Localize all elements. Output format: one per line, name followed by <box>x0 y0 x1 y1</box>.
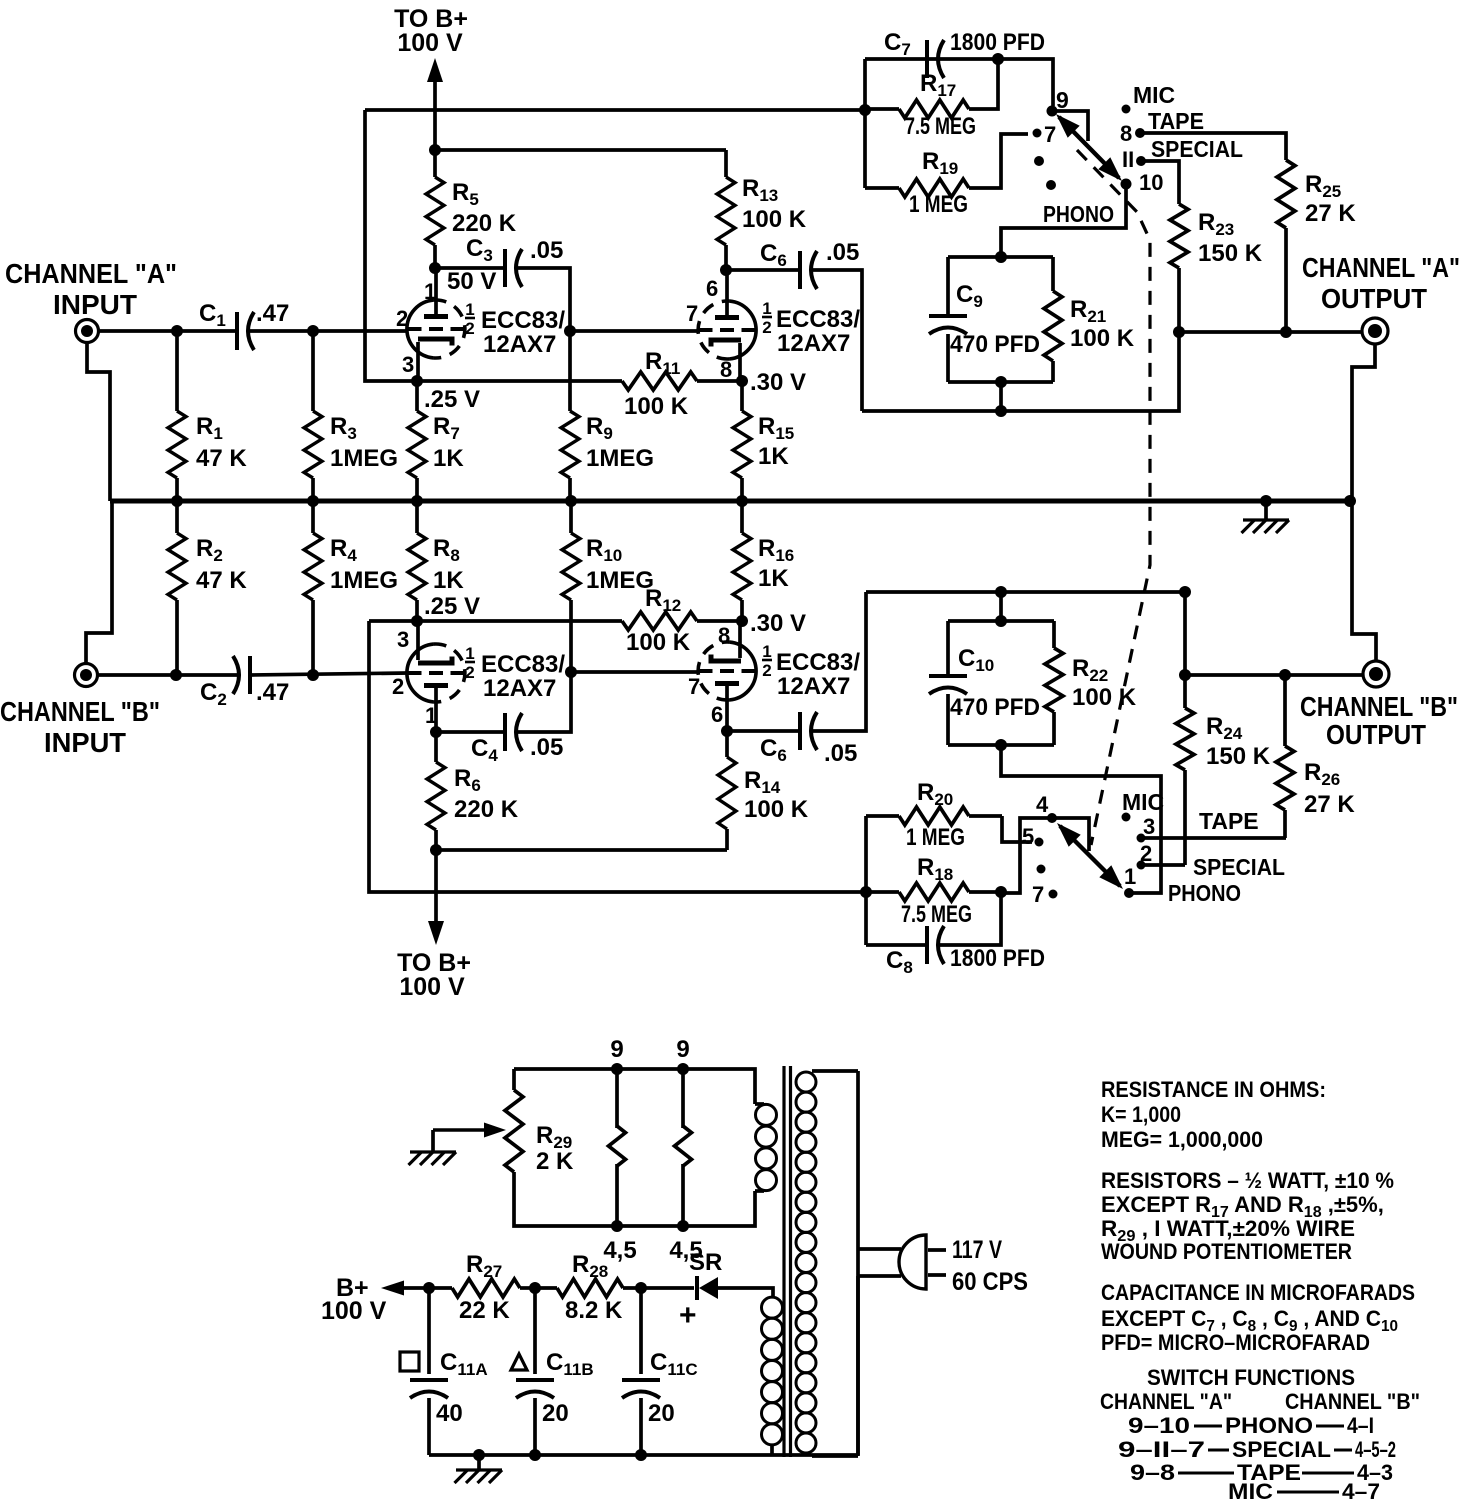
svg-text:WOUND POTENTIOMETER: WOUND POTENTIOMETER <box>1101 1239 1352 1264</box>
note switch table header <box>1100 1389 1420 1414</box>
pin labels V4 <box>688 623 730 727</box>
node B+ output arrow <box>321 1274 429 1325</box>
resistor R2 <box>168 501 186 675</box>
AC plug 117V 60CPS <box>858 1235 946 1289</box>
wire V4 grid from C4 node <box>571 670 698 674</box>
wire V4 cathode lead <box>738 621 742 658</box>
value label R6 220K <box>454 765 519 823</box>
svg-text:1 MEG: 1 MEG <box>909 191 968 218</box>
svg-text:470 PFD: 470 PFD <box>950 694 1040 721</box>
svg-text:1: 1 <box>762 299 771 318</box>
node PS bus junctions <box>473 1449 647 1461</box>
wire V1 cathode lead <box>416 342 420 381</box>
capacitor C11B <box>511 1288 594 1455</box>
node C11C top junction <box>635 1282 647 1294</box>
ground (PS bus) <box>455 1455 503 1483</box>
resistor R3 <box>304 331 322 501</box>
switch A wiper arm <box>1056 114 1122 181</box>
svg-text:1: 1 <box>1124 864 1136 889</box>
wire C1 to V1 grid <box>250 329 408 333</box>
svg-text:ECC83/: ECC83/ <box>776 306 860 333</box>
wire primary right leg <box>856 1071 860 1456</box>
node V1 cathode junction <box>411 375 480 413</box>
wire PS ground bus <box>429 1453 858 1457</box>
value label R15 1K <box>758 413 794 470</box>
wire C2 to V3 grid <box>251 673 408 675</box>
svg-text:RESISTORS – ½ WATT, ±10 %: RESISTORS – ½ WATT, ±10 % <box>1101 1168 1394 1193</box>
value label R24 150K <box>1206 713 1271 770</box>
svg-text:8: 8 <box>720 357 732 382</box>
svg-text:10: 10 <box>1139 170 1163 195</box>
wire V2 cathode lead <box>738 343 742 381</box>
capacitor C1 <box>199 300 289 350</box>
wire PHONO B from C10 box <box>1001 745 1161 893</box>
resistor R4 <box>304 501 322 675</box>
pin label 9 (right) <box>676 1036 689 1063</box>
switch A spare contacts <box>1034 156 1056 190</box>
svg-text:12AX7: 12AX7 <box>777 673 850 700</box>
svg-text:100 V: 100 V <box>397 29 463 57</box>
svg-text:8: 8 <box>1120 121 1132 146</box>
svg-text:8.2 K: 8.2 K <box>565 1297 623 1324</box>
output jack channel A <box>1362 318 1388 344</box>
triode V4 (1/2 ECC83/12AX7) <box>698 642 756 700</box>
node heater top junctions <box>611 1063 689 1075</box>
svg-text:CHANNEL "B": CHANNEL "B" <box>1285 1389 1420 1414</box>
svg-text:2: 2 <box>465 319 474 338</box>
node V3 plate pin1 <box>430 726 442 738</box>
svg-text:3: 3 <box>402 352 414 377</box>
switch A contact 8 TAPE <box>1120 108 1204 146</box>
note resistor ratings <box>1101 1168 1394 1264</box>
capacitor C9 + resistor R21 tank <box>929 257 1135 382</box>
resistor R16 <box>733 501 751 621</box>
value label R3 1MEG <box>330 413 398 472</box>
wire V1 cathode to R11 <box>417 379 622 383</box>
svg-text:CHANNEL "A": CHANNEL "A" <box>5 258 177 289</box>
svg-text:27 K: 27 K <box>1304 791 1355 818</box>
wire PHONO A to C9 box <box>1001 184 1126 257</box>
node output B corner junction <box>1179 586 1191 598</box>
svg-text:+: + <box>679 1299 697 1332</box>
svg-text:SPECIAL: SPECIAL <box>1151 136 1243 162</box>
svg-text:2 K: 2 K <box>536 1148 574 1175</box>
capacitor C7 <box>884 29 1045 78</box>
svg-text:9: 9 <box>610 1036 623 1063</box>
svg-text:1K: 1K <box>758 565 789 592</box>
svg-text:MEG= 1,000,000: MEG= 1,000,000 <box>1101 1127 1263 1152</box>
svg-text:100 V: 100 V <box>321 1297 387 1325</box>
svg-text:SWITCH FUNCTIONS: SWITCH FUNCTIONS <box>1147 1365 1355 1390</box>
node B+ supply (top) <box>394 5 468 57</box>
input jack channel A <box>76 320 99 343</box>
svg-text:1: 1 <box>465 300 474 319</box>
svg-text:1MEG: 1MEG <box>330 445 398 472</box>
svg-text:.05: .05 <box>824 740 857 767</box>
value label R28 8.2K <box>565 1251 623 1324</box>
value label R19 1MEG <box>909 148 968 218</box>
svg-text:ECC83/: ECC83/ <box>481 651 565 678</box>
node bus junction x=417 <box>411 495 423 507</box>
svg-text:100 K: 100 K <box>624 393 689 420</box>
value label R23 150K <box>1198 209 1263 267</box>
svg-text:7: 7 <box>1032 882 1044 907</box>
pin labels V3 <box>392 627 437 728</box>
svg-text:9–10: 9–10 <box>1128 1413 1190 1438</box>
svg-text:PHONO: PHONO <box>1225 1413 1313 1438</box>
node heater bottom junctions <box>611 1220 689 1232</box>
wire left feedback leg to V1 cathode <box>365 110 415 381</box>
svg-text:100 K: 100 K <box>742 206 807 233</box>
resistor R25 <box>1277 160 1295 332</box>
switch B contact 3 <box>1137 814 1156 843</box>
wire SR to secondary <box>718 1288 773 1297</box>
node output A rail junction <box>995 405 1007 417</box>
resistor R8 <box>408 501 426 621</box>
svg-text:1MEG: 1MEG <box>330 567 398 594</box>
resistor R6 <box>427 732 445 850</box>
value label R5 220K <box>452 179 517 237</box>
note resistance units <box>1101 1077 1326 1152</box>
svg-text:1K: 1K <box>433 567 464 594</box>
value label R4 1MEG <box>330 535 398 594</box>
node V4 grid junction <box>565 666 577 678</box>
svg-text:6: 6 <box>711 702 723 727</box>
wire R12 to V4 cathode <box>697 619 742 623</box>
wire R6/R14 bottom rail <box>436 848 727 852</box>
value label R29 2K <box>536 1122 574 1175</box>
svg-text:PFD= MICRO–MICROFARAD: PFD= MICRO–MICROFARAD <box>1101 1330 1370 1355</box>
svg-text:1MEG: 1MEG <box>586 567 654 594</box>
node C9 box bottom <box>995 376 1007 388</box>
node bus ground tap <box>1260 495 1272 507</box>
svg-text:9–II–7: 9–II–7 <box>1118 1437 1205 1462</box>
note switch table row special <box>1118 1437 1396 1462</box>
svg-text:6: 6 <box>706 276 718 301</box>
capacitor C4 <box>471 713 563 765</box>
svg-text:7.5 MEG: 7.5 MEG <box>905 113 976 140</box>
node C7/R17 right junction <box>992 53 1004 65</box>
svg-text:1K: 1K <box>433 445 464 472</box>
value label R7 1K <box>433 413 464 472</box>
node B+ supply (bottom) <box>397 949 471 1001</box>
svg-text:150 K: 150 K <box>1206 743 1271 770</box>
wire C10 box top leg <box>999 592 1003 621</box>
value label R18 7.5MEG <box>901 854 972 928</box>
ground (R29 wiper) <box>409 1152 457 1165</box>
potentiometer R29 <box>433 1090 523 1172</box>
svg-text:.47: .47 <box>256 300 289 327</box>
wire C4 left <box>436 730 504 734</box>
resistor R18 <box>866 883 1001 901</box>
wire output line B <box>1185 673 1363 677</box>
svg-text:1800 PFD: 1800 PFD <box>950 945 1045 972</box>
label V1 type <box>465 300 565 358</box>
node feedback rail junction <box>859 104 871 116</box>
value label R12 100K <box>626 585 691 656</box>
wire R20 to contact 5 <box>1002 816 1032 842</box>
node R25 bottom junction <box>1280 326 1292 338</box>
svg-text:9: 9 <box>1056 87 1069 113</box>
wire C3 right to grid riser <box>518 268 570 331</box>
triode V1 (1/2 ECC83/12AX7) <box>407 300 465 358</box>
wire C6A right + riser down <box>813 270 862 411</box>
svg-text:TAPE: TAPE <box>1148 108 1204 134</box>
wire input A to C1 <box>98 329 238 333</box>
switch B spare contact <box>1037 865 1046 874</box>
resistor R10 <box>562 501 580 672</box>
resistor R14 <box>718 731 736 850</box>
wire B+ arrow up <box>427 58 443 150</box>
transformer core <box>784 1066 791 1457</box>
pin labels V2 <box>686 276 732 382</box>
svg-text:40: 40 <box>436 1400 463 1427</box>
svg-text:1: 1 <box>762 642 771 661</box>
svg-text:60 CPS: 60 CPS <box>952 1268 1028 1296</box>
node bus junction x=742 <box>736 495 748 507</box>
svg-text:1800 PFD: 1800 PFD <box>950 29 1045 56</box>
svg-text:100 K: 100 K <box>744 796 809 823</box>
wire B+ arrow down <box>428 850 444 945</box>
svg-text:8: 8 <box>718 623 730 648</box>
node V3 cathode junction <box>411 593 480 627</box>
note switch table row mic <box>1228 1479 1380 1500</box>
svg-text:PHONO: PHONO <box>1043 201 1114 227</box>
rectifier SR <box>641 1249 722 1332</box>
switch A contact 7 <box>1033 122 1057 147</box>
dashed switch gang link <box>1077 150 1150 845</box>
wire jack B ground leg <box>86 501 112 664</box>
pin labels V1 <box>396 306 414 377</box>
resistor R15 <box>733 381 751 501</box>
transformer primary winding <box>796 1071 858 1456</box>
wire input B to C2 <box>97 673 239 677</box>
wire V1 plate lead <box>434 268 438 317</box>
svg-text:4,5: 4,5 <box>603 1237 636 1264</box>
label CHANNEL A OUTPUT <box>1302 252 1460 314</box>
svg-text:470 PFD: 470 PFD <box>950 331 1040 358</box>
capacitor C10 + resistor R22 tank <box>929 621 1137 745</box>
pin label 9 (left) <box>610 1036 623 1063</box>
svg-text:PHONO: PHONO <box>1168 880 1241 906</box>
capacitor C8 <box>866 892 1045 977</box>
svg-text:50 V: 50 V <box>447 268 496 295</box>
node R6 bottom junction <box>430 844 442 856</box>
node junction R5 top <box>429 144 441 156</box>
note capacitance units <box>1101 1280 1415 1355</box>
wire C6A left <box>726 268 799 272</box>
svg-text:.47: .47 <box>256 679 289 706</box>
capacitor C11C <box>622 1288 698 1455</box>
resistor R13 <box>717 150 735 270</box>
svg-text:INPUT: INPUT <box>53 289 137 320</box>
wire switch B frame stub <box>1052 818 1089 851</box>
resistor R12 <box>622 612 697 630</box>
svg-text:27 K: 27 K <box>1305 200 1356 227</box>
node R1 top <box>171 325 183 337</box>
wire C6B left <box>727 729 799 733</box>
svg-text:2: 2 <box>1140 841 1152 866</box>
capacitor C11A <box>400 1288 488 1455</box>
svg-text:.30 V: .30 V <box>750 369 806 396</box>
wire C3 left <box>435 266 504 270</box>
wire TAPE B line <box>1144 808 1286 838</box>
node bus junction x=177 <box>171 495 183 507</box>
wire switch B contact4 to R18 node <box>1006 818 1052 893</box>
wire R11 to V2 cathode <box>697 379 742 383</box>
switch A contact 9 <box>1047 87 1069 117</box>
wire output A lower rail <box>862 332 1179 411</box>
wire V2 grid from C3 node <box>570 329 698 333</box>
switch B contact MIC <box>1122 789 1165 822</box>
svg-text:7: 7 <box>686 301 698 326</box>
svg-text:.05: .05 <box>826 239 859 266</box>
switch B contact 7 <box>1032 882 1058 907</box>
wire V3 cathode lead <box>416 621 420 660</box>
svg-text:MIC: MIC <box>1133 82 1175 108</box>
resistor R17 <box>865 59 998 118</box>
triode V3 (1/2 ECC83/12AX7) <box>407 644 465 702</box>
value label R8 1K <box>433 535 464 594</box>
svg-text:CHANNEL "B": CHANNEL "B" <box>1300 691 1458 722</box>
heater load V2/V4 <box>675 1069 692 1226</box>
wire output line A <box>1179 330 1362 334</box>
node C11A top junction <box>423 1282 435 1294</box>
wire plug lower leg <box>856 1276 860 1455</box>
label CHANNEL A INPUT <box>5 258 177 320</box>
svg-text:2: 2 <box>762 318 771 337</box>
wire top feedback rail <box>365 108 863 112</box>
capacitor C2 <box>200 656 289 709</box>
svg-text:220 K: 220 K <box>452 210 517 237</box>
wire C7 top rail <box>865 59 1053 106</box>
wire ground bus <box>110 499 1352 504</box>
svg-text:2: 2 <box>762 661 771 680</box>
transformer B+ secondary winding <box>762 1297 783 1456</box>
wire jack B ground leg <box>1352 501 1376 661</box>
wire jack A ground leg <box>87 342 110 501</box>
switch A contact 11 SPECIAL <box>1122 136 1243 172</box>
wire plate supply rail to R13 <box>435 148 726 152</box>
svg-text:4–5–2: 4–5–2 <box>1355 1437 1396 1462</box>
value label R14 100K <box>744 767 809 823</box>
svg-text:9: 9 <box>676 1036 689 1063</box>
capacitor C6 (channel B) <box>760 712 857 767</box>
value label R27 22K <box>459 1251 510 1324</box>
svg-text:1K: 1K <box>758 443 789 470</box>
wire left feedback leg B <box>369 621 866 892</box>
resistor R27 <box>429 1279 535 1297</box>
value label R20 1MEG <box>906 779 965 851</box>
svg-text:47 K: 47 K <box>196 567 247 594</box>
svg-text:7: 7 <box>1044 122 1056 147</box>
svg-text:1MEG: 1MEG <box>586 445 654 472</box>
node R2 bottom <box>170 669 182 681</box>
node V4 cathode junction <box>736 610 806 637</box>
resistor R1 <box>168 331 186 501</box>
resistor R26 <box>1276 675 1294 838</box>
wire C6B right + riser up <box>813 592 866 731</box>
node R26 top junction <box>1279 669 1291 681</box>
wire R18 box left leg <box>864 816 868 945</box>
svg-text:3: 3 <box>1143 814 1155 839</box>
svg-text:12AX7: 12AX7 <box>483 675 556 702</box>
svg-text:100 K: 100 K <box>1070 325 1135 352</box>
value label R2 47K <box>196 535 247 594</box>
svg-text:4: 4 <box>1036 792 1049 817</box>
heater load V1/V3 <box>609 1069 626 1226</box>
node R24 top junction <box>1179 669 1191 681</box>
value label R25 27K <box>1305 171 1356 227</box>
resistor R23 <box>1170 204 1188 332</box>
resistor R5 <box>426 150 444 268</box>
capacitor C6 (channel A) <box>760 239 859 289</box>
svg-text:220 K: 220 K <box>454 796 519 823</box>
svg-text:2: 2 <box>465 663 474 682</box>
pin label 4,5 (left) <box>603 1237 636 1264</box>
node C10 box bottom <box>995 739 1007 751</box>
note switch table row phono <box>1128 1413 1374 1438</box>
wire SPECIAL A to R23 <box>1144 161 1179 204</box>
svg-text:OUTPUT: OUTPUT <box>1326 719 1426 750</box>
svg-text:K= 1,000: K= 1,000 <box>1101 1102 1181 1127</box>
svg-text:CHANNEL "A": CHANNEL "A" <box>1100 1389 1232 1414</box>
svg-text:ECC83/: ECC83/ <box>481 307 565 334</box>
svg-text:12AX7: 12AX7 <box>483 331 556 358</box>
svg-text:CAPACITANCE IN MICROFARADS: CAPACITANCE IN MICROFARADS <box>1101 1280 1415 1305</box>
wire heater box <box>514 1069 755 1226</box>
wire TAPE A to R25 <box>1142 133 1286 160</box>
note switch table row tape <box>1130 1460 1393 1485</box>
node R3 top <box>307 325 319 337</box>
svg-text:MIC: MIC <box>1228 1479 1273 1500</box>
node R23 bottom junction <box>1173 326 1185 338</box>
wire cathode line B <box>369 619 622 623</box>
svg-text:117 V: 117 V <box>952 1236 1002 1264</box>
transformer heater winding <box>755 1104 777 1191</box>
switch B contact 4 <box>1036 792 1057 823</box>
svg-text:100 K: 100 K <box>626 629 691 656</box>
node R18 left junction <box>860 886 872 898</box>
wire V3 plate lead <box>434 686 438 732</box>
node bus junction x=571 <box>565 495 577 507</box>
svg-text:CHANNEL "A": CHANNEL "A" <box>1302 252 1460 283</box>
svg-text:1: 1 <box>425 703 437 728</box>
svg-text:12AX7: 12AX7 <box>777 330 850 357</box>
resistor R19 <box>865 134 1028 197</box>
svg-text:INPUT: INPUT <box>44 727 126 758</box>
node V4 plate pin6 <box>721 725 733 737</box>
label V3 type <box>465 644 565 702</box>
svg-text:SPECIAL: SPECIAL <box>1193 854 1285 880</box>
capacitor C3 <box>466 235 563 287</box>
node bus junction x=313 <box>307 495 319 507</box>
label CHANNEL B OUTPUT <box>1300 691 1458 750</box>
output jack channel B <box>1363 661 1389 687</box>
svg-text:MIC: MIC <box>1122 789 1164 815</box>
node C9 box top <box>995 251 1007 263</box>
resistor R7 <box>408 381 426 501</box>
node R4 bottom <box>307 669 319 681</box>
svg-text:47 K: 47 K <box>196 445 247 472</box>
svg-text:.25 V: .25 V <box>424 593 480 620</box>
node C10 box top <box>995 615 1007 627</box>
resistor R20 <box>866 807 1002 825</box>
svg-text:SR: SR <box>689 1249 722 1276</box>
svg-text:150 K: 150 K <box>1198 240 1263 267</box>
switch B contact 1 PHONO <box>1124 864 1241 906</box>
wire V2 plate lead <box>725 270 729 318</box>
